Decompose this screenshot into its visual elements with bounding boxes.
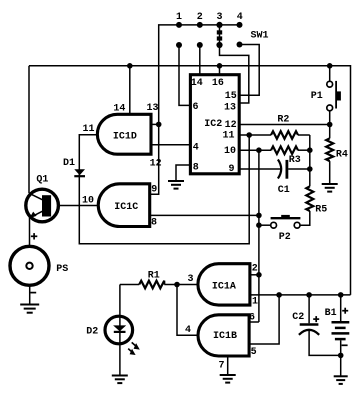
svg-text:B1: B1 [325, 308, 337, 319]
svg-text:4: 4 [185, 325, 191, 336]
svg-text:R2: R2 [277, 115, 289, 126]
svg-text:4: 4 [237, 12, 243, 23]
svg-text:12: 12 [150, 159, 162, 170]
svg-text:11: 11 [222, 131, 234, 142]
svg-text:13: 13 [224, 103, 236, 114]
svg-text:IC1B: IC1B [213, 331, 237, 342]
svg-text:15: 15 [225, 91, 237, 102]
svg-text:D1: D1 [63, 158, 75, 169]
svg-text:1: 1 [252, 296, 258, 307]
svg-text:4: 4 [193, 142, 199, 153]
svg-text:PS: PS [56, 264, 68, 275]
svg-text:6: 6 [192, 102, 198, 113]
svg-text:9: 9 [228, 164, 234, 175]
svg-text:IC1C: IC1C [114, 202, 138, 213]
svg-text:IC1A: IC1A [212, 281, 236, 292]
svg-text:SW1: SW1 [250, 31, 268, 42]
svg-text:7: 7 [218, 360, 224, 371]
svg-text:2: 2 [197, 12, 203, 23]
svg-text:IC1D: IC1D [113, 131, 137, 142]
svg-text:13: 13 [146, 103, 158, 114]
svg-text:R4: R4 [336, 149, 348, 160]
svg-text:C1: C1 [278, 185, 290, 196]
svg-text:2: 2 [252, 263, 258, 274]
svg-text:D2: D2 [86, 326, 98, 337]
svg-text:10: 10 [224, 146, 236, 157]
svg-text:R1: R1 [148, 271, 160, 282]
svg-text:16: 16 [212, 78, 224, 89]
svg-text:R5: R5 [315, 204, 327, 215]
svg-text:3: 3 [216, 12, 222, 23]
svg-text:12: 12 [225, 120, 237, 131]
svg-text:14: 14 [113, 103, 125, 114]
svg-text:11: 11 [82, 124, 94, 135]
svg-text:P2: P2 [279, 232, 291, 243]
svg-text:C2: C2 [292, 312, 304, 323]
svg-text:10: 10 [82, 195, 94, 206]
svg-text:R3: R3 [289, 155, 301, 166]
svg-text:14: 14 [191, 78, 203, 89]
svg-text:1: 1 [176, 12, 182, 23]
svg-text:3: 3 [187, 274, 193, 285]
svg-text:Q1: Q1 [36, 174, 48, 185]
svg-text:5: 5 [251, 347, 257, 358]
svg-text:P1: P1 [311, 91, 323, 102]
svg-text:6: 6 [249, 313, 255, 324]
svg-text:IC2: IC2 [204, 119, 222, 130]
svg-text:8: 8 [193, 163, 199, 174]
svg-text:9: 9 [151, 184, 157, 195]
svg-text:8: 8 [151, 218, 157, 229]
